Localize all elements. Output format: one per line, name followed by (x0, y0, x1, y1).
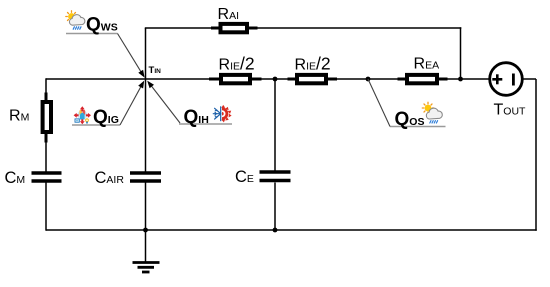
junction dot at RAI branch (458, 77, 463, 82)
wire: source right lead to right rail (523, 78, 537, 80)
wire: main horizontal between RIE/2 resistors (252, 78, 295, 80)
wire: TIN node vertical up to top branch (145, 28, 147, 79)
wire: bottom rail (46, 229, 537, 231)
junction dot at CE bottom (273, 228, 278, 233)
capacitor CM (5, 169, 62, 187)
junction dot at CE tap (273, 77, 278, 82)
wire: CAIR to bottom rail (145, 183, 147, 231)
wire: top branch vertical down to main line (460, 27, 462, 79)
heat source QWS label and leader (66, 15, 145, 78)
capacitor CAIR (95, 169, 162, 187)
resistor RIE/2 (second) (288, 54, 338, 84)
wire: top branch horizontal right of RAI (249, 27, 461, 29)
resistor RAI (211, 6, 258, 32)
wire: top branch horizontal left of RAI (145, 27, 219, 29)
ground (133, 230, 160, 272)
voltage source TOUT (490, 63, 526, 119)
junction dot at QOS tap (366, 77, 371, 82)
wire: TIN vertical down to CAIR (145, 79, 147, 172)
wire: left branch top (45, 78, 47, 100)
junction dot at ground tap (143, 228, 148, 233)
wire: CE to bottom rail (274, 183, 276, 231)
icon QOS (sun behind rain cloud) (422, 102, 442, 123)
resistor REA (398, 56, 448, 84)
icon QIG (internal gains: people with outward arrows) (74, 106, 91, 124)
wire: right rail vertical (535, 79, 537, 231)
resistor RIE/2 (first) (209, 54, 262, 84)
heat source QIG label and leader (72, 81, 144, 128)
heat source QOS label and leader (368, 79, 446, 130)
wire: CE branch vertical top (274, 79, 276, 172)
wire: left branch RM to CM (45, 134, 47, 172)
wire: main horizontal REA to source (439, 78, 490, 80)
icon QIH (half snowflake / half sun: heating-cooling) (213, 105, 231, 123)
capacitor CE (235, 168, 291, 186)
wire: main horizontal left segment (46, 78, 219, 80)
wire: left branch CM to bottom rail (45, 183, 47, 231)
heat source QIH label and leader (147, 81, 232, 128)
wire: main horizontal between RIE/2 and REA (328, 78, 405, 80)
resistor RM (9, 93, 51, 143)
icon QWS (sun behind rain cloud) (66, 11, 85, 29)
